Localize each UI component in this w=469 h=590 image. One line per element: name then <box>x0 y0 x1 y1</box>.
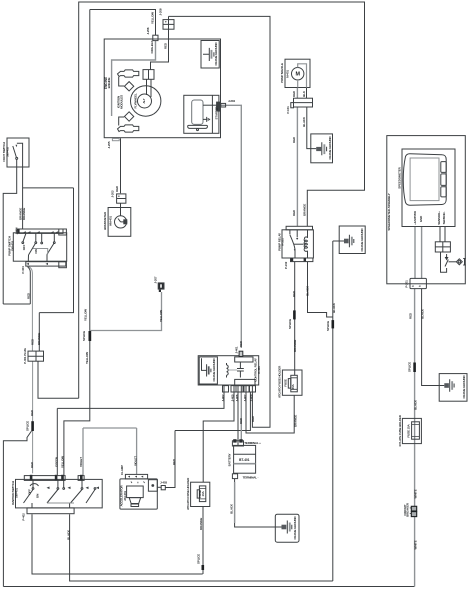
accelerator module box <box>120 479 157 509</box>
svg-text:SW-402: SW-402 <box>6 147 10 157</box>
svg-text:+12V/PWR: +12V/PWR <box>413 210 417 225</box>
control relay coil link <box>228 369 237 371</box>
accelerator actuator shape <box>127 486 144 498</box>
svg-text:J-405: J-405 <box>231 394 235 401</box>
svg-text:CLAMP: CLAMP <box>120 465 124 475</box>
pump relay fixed contact <box>296 230 298 237</box>
svg-text:YELLOW: YELLOW <box>159 310 163 322</box>
svg-text:FRAME GROUND: FRAME GROUND <box>214 42 218 66</box>
svg-text:FRAME GROUND: FRAME GROUND <box>462 375 466 399</box>
alternator circle <box>138 94 152 108</box>
svg-text:SW-401: SW-401 <box>15 488 19 498</box>
pump switch contacts <box>23 233 54 242</box>
speedometer assembly box <box>387 136 466 284</box>
wire violet to ignition <box>82 428 84 475</box>
svg-text:SPLICE: SPLICE <box>197 554 201 564</box>
ignition module top <box>124 82 133 91</box>
battery plus terminal <box>232 441 243 446</box>
svg-text:+: + <box>445 256 447 260</box>
wire rectifier to alternator <box>147 79 152 97</box>
wire black ground run vertical <box>332 241 334 581</box>
svg-text:ON: ON <box>36 494 40 498</box>
wire ignition bottom black ground run <box>70 514 333 581</box>
speedometer buttons <box>441 162 446 173</box>
svg-text:ORANGE: ORANGE <box>37 333 41 345</box>
wire plug top to module <box>119 77 124 86</box>
frame ground box engine <box>201 41 219 69</box>
svg-text:YELLOW: YELLOW <box>85 352 89 364</box>
svg-text:BLACK: BLACK <box>421 308 425 319</box>
ground symbol relay sideways <box>339 235 354 247</box>
svg-text:VIOLET: VIOLET <box>79 457 83 467</box>
svg-text:RED: RED <box>239 340 243 347</box>
foot switch box <box>7 138 29 167</box>
pump motor circle <box>292 68 304 80</box>
hourmeter connector <box>117 194 126 203</box>
svg-text:MODULES: MODULES <box>120 95 124 109</box>
control relay top tab <box>235 357 253 362</box>
wire red relay horizontal <box>175 392 250 431</box>
battery box <box>234 445 256 473</box>
connector J-205 engine bottom <box>112 139 119 141</box>
svg-text:GND: GND <box>419 215 423 222</box>
frame ground box relay <box>339 226 365 254</box>
svg-text:J-204: J-204 <box>228 99 235 103</box>
wire pump switch pin to return <box>28 267 31 304</box>
svg-text:BLACK: BLACK <box>306 285 310 296</box>
wire foot switch left leg <box>3 167 17 304</box>
wire battery minus gray overlay <box>234 482 236 523</box>
wire relay to atc fuse bottom <box>246 392 294 433</box>
svg-text:FRAME GROUND: FRAME GROUND <box>212 358 216 382</box>
connector J-401 on starter cable <box>239 351 243 356</box>
svg-text:BLACK: BLACK <box>332 302 336 313</box>
svg-text:J-402: J-402 <box>221 394 225 401</box>
speedometer inner box <box>402 149 455 227</box>
wire engine yellow inner gray <box>112 41 156 116</box>
pump nozzle box <box>285 59 310 87</box>
svg-text:J-403: J-403 <box>160 481 167 485</box>
svg-text:FRAME GROUND: FRAME GROUND <box>328 136 332 160</box>
splice yellow <box>89 331 92 341</box>
battery minus terminal <box>232 474 237 479</box>
atc fuse holder bottom box <box>191 482 210 506</box>
svg-text:RED: RED <box>239 417 243 424</box>
starter ground symbol <box>203 117 210 122</box>
speedometer lcd <box>410 158 439 201</box>
wire main harness horizontal <box>57 392 224 408</box>
svg-text:P-401 PLUG: P-401 PLUG <box>23 347 27 363</box>
wire accelerator stub <box>157 486 161 488</box>
svg-text:WHITE: WHITE <box>413 489 417 498</box>
svg-text:J-206: J-206 <box>146 27 150 34</box>
svg-text:AM-401: AM-401 <box>123 491 127 501</box>
speed sensor diamond <box>456 259 462 265</box>
wire J-208 black into engine <box>151 16 169 69</box>
control relay bottom strip <box>235 379 255 385</box>
wire red splice to ignition <box>32 361 34 473</box>
svg-text:J-404: J-404 <box>14 227 18 234</box>
svg-text:M-401: M-401 <box>285 70 289 78</box>
connector J-204 <box>217 102 221 111</box>
starter solenoid <box>192 100 203 124</box>
accelerator connector J-403 <box>161 486 165 490</box>
ground symbol battery <box>275 521 292 534</box>
spark plug top <box>118 70 139 77</box>
accelerator side box <box>148 480 157 492</box>
svg-text:J-408: J-408 <box>249 394 253 401</box>
svg-text:ORANGE: ORANGE <box>293 340 297 352</box>
wire orange relay to fuse holder <box>203 392 234 482</box>
svg-text:FRAME GROUND: FRAME GROUND <box>293 516 297 540</box>
svg-text:SPEEDOMETER ASSEMBLY: SPEEDOMETER ASSEMBLY <box>387 193 391 230</box>
svg-text:SPLICE: SPLICE <box>288 319 292 329</box>
control relay box <box>198 356 259 385</box>
fuse top cartridge <box>291 375 298 392</box>
pump connector P-101 <box>294 98 313 107</box>
svg-text:J-205: J-205 <box>107 141 111 148</box>
ignition switch box <box>16 479 103 508</box>
connector J-206 <box>153 35 158 40</box>
wire violet to accelerator <box>136 428 138 474</box>
svg-text:BT-401: BT-401 <box>239 458 250 462</box>
svg-text:BREAKER: BREAKER <box>406 502 410 517</box>
svg-text:ALT: ALT <box>142 98 146 103</box>
splice pump red <box>31 421 34 431</box>
svg-text:SW-403: SW-403 <box>11 241 15 251</box>
fuse holder 4plate box <box>402 418 421 443</box>
svg-text:YELLOW: YELLOW <box>61 456 65 468</box>
svg-text:OFF: OFF <box>22 244 26 250</box>
wire speedo power gray <box>415 227 422 279</box>
svg-text:FUSE 15A: FUSE 15A <box>407 423 411 437</box>
svg-text:K-401: K-401 <box>257 366 261 374</box>
wire plug bottom to module <box>119 117 124 126</box>
starter box <box>184 95 219 133</box>
svg-text:SENSOR-: SENSOR- <box>442 212 446 225</box>
control relay ground sub-box <box>199 357 217 384</box>
wire yellow main loop top <box>79 2 365 398</box>
svg-text:J-401: J-401 <box>234 346 238 353</box>
ignition switch bottom strip <box>27 508 74 514</box>
svg-text:BLACK: BLACK <box>66 529 70 540</box>
circuit breaker <box>411 506 416 511</box>
frame ground box speedo <box>439 374 467 402</box>
svg-text:RED: RED <box>30 461 34 468</box>
wire pump relay pin jog <box>308 262 333 317</box>
svg-text:BLACK: BLACK <box>302 116 306 127</box>
ignition module bottom <box>124 112 133 121</box>
control relay contact <box>237 365 244 378</box>
wire pump switch pin red chain <box>29 267 33 351</box>
svg-text:ORG-BLK: ORG-BLK <box>150 40 154 54</box>
foot switch contacts <box>17 143 23 167</box>
speedometer screen outline <box>403 154 446 205</box>
svg-text:P-101: P-101 <box>286 106 290 114</box>
svg-text:RED: RED <box>292 290 296 297</box>
wire main white gray run <box>414 289 416 587</box>
ground symbol control relay <box>202 358 211 376</box>
svg-text:SPLICE: SPLICE <box>326 321 330 331</box>
svg-text:SPLICE: SPLICE <box>26 421 30 431</box>
svg-text:YELLOW: YELLOW <box>83 309 87 321</box>
dead-end connector mid <box>158 283 164 289</box>
wire pump nozzle leads <box>296 88 298 99</box>
svg-text:P-201: P-201 <box>405 280 409 288</box>
engine box <box>104 39 220 138</box>
pump motor internal wires <box>298 64 307 88</box>
svg-text:ORANGE: ORANGE <box>199 518 203 530</box>
wire pump relay to atc fuse top <box>294 262 296 376</box>
svg-text:BLACK: BLACK <box>229 503 233 514</box>
svg-text:RED: RED <box>27 292 31 299</box>
wire solenoid to J-204 <box>203 104 217 106</box>
wire violet jog horizontal <box>83 427 137 429</box>
svg-text:SPLICE: SPLICE <box>407 362 411 372</box>
splice atc bottom <box>202 565 205 570</box>
svg-text:ATC/ATO FUSE HOLDER: ATC/ATO FUSE HOLDER <box>186 477 190 510</box>
wire J-208 to right loop <box>169 16 271 427</box>
wire loop over P-401 <box>39 188 73 313</box>
svg-text:P-102: P-102 <box>284 261 288 269</box>
svg-text:RED: RED <box>163 42 167 49</box>
wire red to accelerator connector <box>165 431 175 488</box>
svg-text:TERMINAL -: TERMINAL - <box>243 476 259 480</box>
svg-text:RED: RED <box>172 458 176 465</box>
ground symbol speedo sideways <box>439 379 454 392</box>
ignition switch top tab2 <box>78 476 84 481</box>
flywheel circle <box>131 86 161 116</box>
wire sensor connector loop <box>441 252 447 272</box>
svg-text:FUSE: FUSE <box>284 379 288 387</box>
svg-text:RED: RED <box>115 185 119 192</box>
wire speedo sensor pins <box>440 227 445 242</box>
ground symbol pump <box>316 147 321 151</box>
wire ignition bottom to atc chain <box>32 514 203 574</box>
pump relay coil <box>304 230 307 258</box>
svg-text:SENSOR+: SENSOR+ <box>437 211 441 225</box>
svg-text:ON: ON <box>34 249 38 253</box>
svg-text:P-402: P-402 <box>21 513 25 521</box>
atc fuse holder top box <box>282 370 302 395</box>
wire control relay pin contact <box>239 362 241 365</box>
svg-text:FRAME GROUND: FRAME GROUND <box>360 228 364 252</box>
pump relay link <box>294 243 304 245</box>
svg-text:YELLOW: YELLOW <box>150 12 154 24</box>
splice white main <box>413 363 416 373</box>
wire to frame ground mid right <box>333 240 339 242</box>
hourmeter dial <box>115 216 127 228</box>
wire sensor switch to diamond <box>449 261 457 263</box>
ignition switch top strip <box>24 476 65 481</box>
frame ground box pump <box>311 134 333 163</box>
svg-text:HOURMETER: HOURMETER <box>103 211 107 230</box>
svg-text:J-207: J-207 <box>154 276 158 283</box>
svg-text:J-407: J-407 <box>243 394 247 401</box>
connector J-208 <box>163 20 174 30</box>
svg-text:TERMINAL +: TERMINAL + <box>244 441 261 445</box>
speedometer bottom connector <box>410 278 426 288</box>
svg-text:P-404: P-404 <box>21 266 25 274</box>
wire green to ignition switch <box>56 408 58 475</box>
svg-text:ORANGE: ORANGE <box>303 204 307 216</box>
pump switch inner link <box>33 249 48 255</box>
wire red pump nozzle gray run <box>296 107 298 226</box>
control relay coil <box>227 363 229 378</box>
svg-text:FLYWHEEL: FLYWHEEL <box>134 93 138 108</box>
ignition switch contacts <box>33 480 82 487</box>
svg-text:RED: RED <box>292 136 296 143</box>
svg-text:HM-401: HM-401 <box>108 216 112 226</box>
svg-text:RED: RED <box>292 90 296 97</box>
wire battery minus to ground <box>235 479 276 527</box>
accelerator top strip <box>125 474 147 479</box>
control relay pin connectors <box>223 386 229 392</box>
svg-text:SPEEDOMETER: SPEEDOMETER <box>398 166 402 188</box>
wire bottom white run <box>3 586 414 588</box>
wire battery plus feed short <box>237 392 239 441</box>
fuse 4plate cartridge <box>412 422 420 439</box>
svg-text:GREEN: GREEN <box>55 457 59 467</box>
pump switch top strip <box>17 229 63 233</box>
wire pump switch return <box>3 303 30 305</box>
fuse bottom cartridge <box>199 486 205 502</box>
svg-text:RED: RED <box>30 338 34 345</box>
svg-text:ENGINE: ENGINE <box>107 78 111 89</box>
wire branch over pump switch <box>23 187 74 189</box>
wire starter cable gray <box>221 105 242 348</box>
wire P-401 lower loop <box>38 361 79 398</box>
speed sensor switch <box>445 254 448 267</box>
svg-text:4 PLATE FUSE HOLDER: 4 PLATE FUSE HOLDER <box>398 414 402 447</box>
svg-text:ORANGE: ORANGE <box>22 208 26 220</box>
svg-text:RED: RED <box>251 415 255 422</box>
svg-text:ORANGE: ORANGE <box>293 415 297 427</box>
svg-text:ATC/ATO FUSE HOLDER: ATC/ATO FUSE HOLDER <box>277 365 281 398</box>
sensor connector 2x2 <box>435 242 450 252</box>
pump relay blade <box>290 230 295 258</box>
wire foot switch right leg <box>22 167 24 229</box>
svg-text:WHITE: WHITE <box>413 540 417 549</box>
wire yellow below splice <box>64 341 90 475</box>
wire relay to battery plus gray <box>240 392 242 441</box>
wire yellow branch to J-208 <box>90 10 156 332</box>
pump switch side cells <box>59 229 67 235</box>
pump switch box <box>13 233 66 261</box>
svg-text:K-101: K-101 <box>281 238 285 246</box>
starter motor cylinder <box>188 125 208 128</box>
wire orange feed P-401 <box>38 313 40 351</box>
connector P-401 <box>28 351 44 361</box>
frame ground box battery <box>275 514 299 542</box>
spark plug bottom <box>118 125 139 132</box>
rectifier box <box>143 70 154 80</box>
svg-text:RED: RED <box>292 209 296 216</box>
pump switch bottom strip <box>26 262 66 266</box>
ground symbol engine <box>203 48 214 61</box>
svg-text:M: M <box>295 72 300 78</box>
svg-text:RED: RED <box>409 312 413 319</box>
pump relay bottom strip <box>291 258 313 262</box>
svg-text:STARTER: STARTER <box>215 106 219 120</box>
svg-text:J-208: J-208 <box>159 8 163 15</box>
wire splice branch to dead-end connector <box>90 292 162 331</box>
splice black ground chain <box>332 320 335 328</box>
pump relay top strip <box>286 226 312 230</box>
pump relay box <box>282 230 313 258</box>
hourmeter box <box>108 208 131 237</box>
svg-text:BLACK: BLACK <box>413 399 417 410</box>
wire hourmeter feed <box>120 138 122 193</box>
svg-text:VIOLET: VIOLET <box>133 456 137 466</box>
svg-text:OFF: OFF <box>28 489 32 495</box>
svg-text:BATTERY: BATTERY <box>228 453 232 466</box>
svg-text:RED: RED <box>30 409 34 416</box>
svg-text:PUMP NOZZLE: PUMP NOZZLE <box>280 63 284 83</box>
wire atc fuse to battery chain <box>202 507 204 575</box>
wire splice branch left edge bottom <box>3 431 31 587</box>
wire hourmeter connector to box <box>120 203 122 216</box>
wire speedo black to ground <box>422 289 440 386</box>
splice pump relay chain <box>293 310 296 319</box>
svg-text:J-406: J-406 <box>235 394 239 401</box>
svg-text:BLK: BLK <box>302 90 306 97</box>
wire pump black to ground <box>307 107 316 149</box>
svg-text:SPLICE: SPLICE <box>82 331 86 341</box>
